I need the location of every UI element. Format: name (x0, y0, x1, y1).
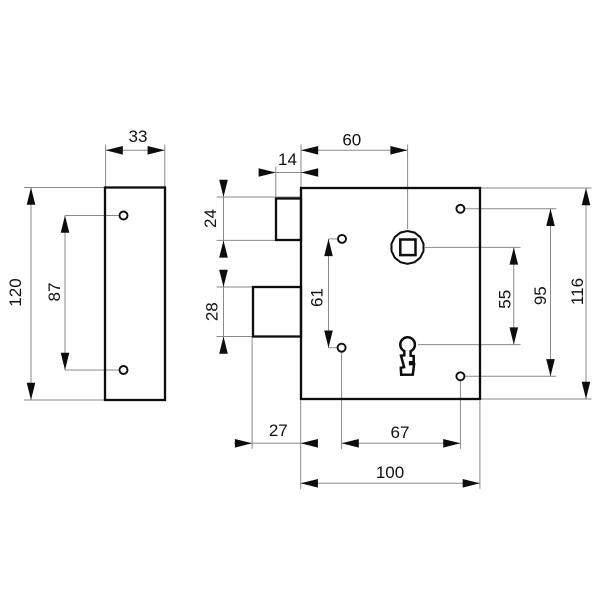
dim 33 arrow left (106, 146, 123, 155)
dim 120 arrow top (27, 188, 36, 205)
dim 14 extension line left (275, 167, 277, 199)
dim 61 arrow bottom (324, 331, 333, 348)
dim 27/100 shared extension line (300, 401, 302, 489)
dim 87 arrow top (61, 216, 70, 233)
dim 14 arrow left (259, 168, 276, 177)
dim 61 line (328, 239, 330, 348)
dim 67 extension line right (459, 381, 461, 449)
dim 67 arrow right (443, 439, 460, 448)
faceplate screw hole bottom (120, 366, 128, 374)
dim 116 arrow top (582, 188, 591, 205)
dim 55 extension lines (425, 246, 521, 248)
dim 60/14 shared extension line (300, 145, 302, 188)
dim 87 arrow bottom (61, 353, 70, 370)
dead bolt box (253, 287, 301, 337)
hub square follower (400, 240, 415, 256)
svg-text:60: 60 (342, 130, 361, 149)
svg-text:14: 14 (278, 150, 297, 169)
dim 27 line (234, 442, 318, 444)
dim 24 arrow top (219, 180, 228, 197)
dim 60 extension line at hub (407, 145, 409, 230)
svg-text:87: 87 (45, 283, 64, 302)
dim 24 arrow bottom (219, 240, 228, 257)
svg-text:24: 24 (201, 209, 220, 228)
svg-text:95: 95 (531, 286, 550, 305)
dim 67 arrow left (342, 439, 359, 448)
dim 95 arrow top (546, 209, 555, 226)
dim 61 extension lines (329, 238, 338, 240)
hub rosette polygon (392, 231, 424, 264)
dim 33 line (106, 149, 165, 151)
dim 120 line (30, 188, 32, 401)
case screw hole top-left (338, 235, 346, 243)
dim 100 arrow left (301, 479, 318, 488)
dim 28 line (223, 271, 225, 353)
dim 28 extension lines (217, 286, 301, 288)
svg-text:28: 28 (203, 302, 222, 321)
svg-text:120: 120 (6, 278, 25, 306)
dim 67 extension line left (341, 353, 343, 449)
keyhole circle (400, 337, 415, 352)
dim 28 arrow bottom (219, 337, 228, 354)
dim 100 arrow right (463, 479, 480, 488)
svg-text:100: 100 (376, 463, 404, 482)
dim 120 extension lines (24, 187, 104, 189)
svg-text:27: 27 (269, 421, 288, 440)
dim 24 extension lines (217, 196, 301, 198)
dim 27 extension line at bolt (251, 337, 253, 449)
dim 55 arrow top (510, 247, 519, 264)
dim 120 arrow bottom (27, 383, 36, 400)
dim 60 line (301, 149, 408, 151)
dim 27 arrow left (235, 439, 252, 448)
case screw hole bottom-right (456, 372, 464, 380)
dim 67 line (342, 442, 461, 444)
dim 61 arrow top (324, 239, 333, 256)
case screw hole bottom-left (338, 344, 346, 352)
svg-text:33: 33 (129, 127, 148, 146)
dim 60 arrow left (301, 146, 318, 155)
svg-text:55: 55 (496, 290, 515, 309)
dim 14 arrow right (301, 168, 318, 177)
dim 60 arrow right (390, 146, 407, 155)
case screw hole top-right (456, 205, 464, 213)
dim 14 line (259, 172, 319, 174)
dim 24 line (223, 181, 225, 257)
keyhole stem (401, 351, 414, 375)
svg-text:116: 116 (568, 278, 587, 305)
dim 55 line (513, 247, 515, 344)
lock case outline (301, 188, 480, 399)
dim 27 arrow right (301, 439, 318, 448)
svg-text:61: 61 (308, 288, 327, 307)
svg-text:67: 67 (391, 423, 410, 442)
dim 116 line (585, 188, 587, 399)
dim 87 line (64, 216, 66, 371)
dim 100 line (301, 482, 480, 484)
dim 100 extension line right (479, 401, 481, 489)
dim 33 arrow right (148, 146, 165, 155)
dim 28 arrow top (219, 270, 228, 287)
faceplate screw hole top (120, 212, 128, 220)
dim 33 extension lines (105, 145, 107, 187)
dim 95 arrow bottom (546, 359, 555, 376)
faceplate outline (105, 188, 165, 401)
dim 87 extension lines (65, 215, 119, 217)
dim 55 arrow bottom (510, 327, 519, 344)
latch bolt box (276, 199, 301, 241)
dim 95 line (550, 209, 552, 376)
dim 116 arrow bottom (582, 382, 591, 399)
dim 95 extension lines (465, 208, 556, 210)
dim 116 extension lines (481, 187, 592, 189)
